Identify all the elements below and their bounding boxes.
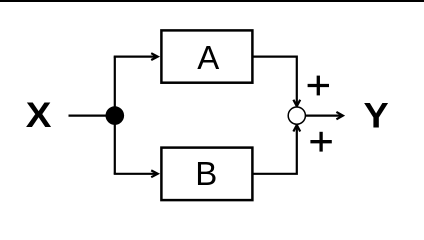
plus sign lower <box>310 132 331 152</box>
arrowhead into block B <box>151 170 158 177</box>
svg-text:X: X <box>26 96 52 135</box>
svg-text:Y: Y <box>364 96 389 135</box>
svg-text:B: B <box>195 155 217 192</box>
wire summing junction to Y <box>305 114 342 116</box>
arrowhead down into summing junction <box>293 100 300 107</box>
svg-text:A: A <box>197 39 219 76</box>
plus sign upper <box>308 76 329 96</box>
summing junction circle <box>288 107 305 124</box>
wire vertical branch through junction <box>114 57 116 174</box>
block A box <box>161 30 252 82</box>
wire upper branch to block A <box>114 55 157 57</box>
arrowhead to Y <box>336 112 343 119</box>
wire block B output to summing junction <box>252 126 296 174</box>
wire lower branch to block B <box>114 173 157 175</box>
wire input X to junction <box>69 114 115 116</box>
junction dot <box>106 106 125 125</box>
wire block A output to summing junction <box>252 57 296 105</box>
arrowhead up into summing junction <box>293 125 300 132</box>
block B box <box>161 148 252 201</box>
arrowhead into block A <box>151 53 158 60</box>
